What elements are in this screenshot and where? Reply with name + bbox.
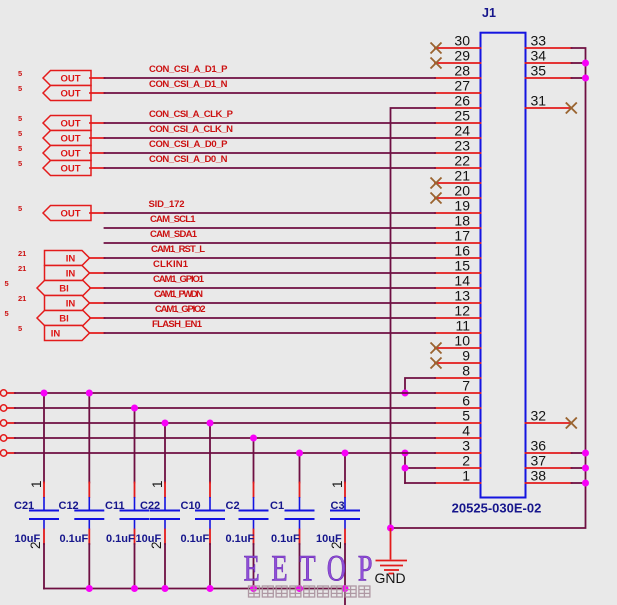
off-page connector circle row 3 (0, 420, 6, 426)
capacitor C10 0.1uF (181, 423, 226, 589)
svg-text:34: 34 (531, 48, 547, 64)
no-connect X on pin 30 (431, 43, 442, 54)
svg-text:OUT: OUT (60, 119, 80, 130)
svg-text:28: 28 (454, 63, 470, 79)
svg-text:0.1uF: 0.1uF (106, 533, 135, 545)
junction dots pin8 / pin2 branches (402, 390, 409, 472)
svg-text:7: 7 (462, 378, 470, 394)
svg-text:32: 32 (531, 408, 547, 424)
no-connect X on pin 29 (431, 58, 442, 69)
svg-text:38: 38 (531, 468, 547, 484)
svg-text:36: 36 (531, 438, 547, 454)
junction dots on bottom bus (86, 585, 349, 592)
capacitor C21 10uF (14, 393, 59, 589)
svg-text:C21: C21 (14, 500, 34, 512)
svg-text:17: 17 (454, 228, 470, 244)
svg-text:OUT: OUT (60, 89, 80, 100)
no-connect X on pin 21 (431, 178, 442, 189)
svg-text:2: 2 (28, 541, 43, 549)
svg-text:20: 20 (454, 183, 470, 199)
svg-text:33: 33 (531, 33, 547, 49)
port IN for net CLKIN1 (45, 266, 90, 281)
svg-text:4: 4 (462, 423, 470, 439)
svg-text:12: 12 (454, 303, 470, 319)
svg-text:15: 15 (454, 258, 470, 274)
junction dot GND at bottom of pin26 wire (387, 525, 394, 532)
wire CAM_SCL1 (105, 227, 436, 229)
svg-text:5: 5 (18, 144, 22, 153)
svg-text:16: 16 (454, 243, 470, 259)
capacitor C3 10uF (316, 453, 360, 589)
wire CLKIN1 (105, 272, 436, 274)
svg-text:24: 24 (454, 123, 470, 139)
svg-text:5: 5 (18, 114, 22, 123)
wire SID_172 (105, 212, 436, 214)
port BI for net CAM1_GPIO1 (37, 281, 91, 296)
svg-text:3: 3 (462, 438, 470, 454)
svg-text:0.1uF: 0.1uF (271, 533, 300, 545)
off-page connector circle row 2 (0, 405, 6, 411)
svg-text:5: 5 (5, 309, 9, 318)
svg-text:19: 19 (454, 198, 470, 214)
wire CON_CSI_A_D0_P (105, 152, 436, 154)
svg-text:C10: C10 (181, 500, 201, 512)
wire power bus row 5 (15, 452, 435, 454)
wire CAM1_PWDN (105, 302, 436, 304)
no-connect X on pin 32 (566, 418, 577, 429)
svg-text:OUT: OUT (60, 74, 80, 85)
svg-text:5: 5 (462, 408, 470, 424)
port pin stubs (90, 78, 105, 333)
svg-text:1: 1 (29, 480, 44, 488)
svg-text:9: 9 (462, 348, 470, 364)
port OUT for net CON_CSI_A_CLK_P (43, 116, 91, 131)
wire CAM1_GPIO1 (105, 287, 436, 289)
J1 right pin stubs (pins 31-38) (526, 48, 572, 483)
svg-text:2: 2 (149, 541, 164, 549)
capacitor C12 0.1uF (59, 393, 105, 589)
svg-text:IN: IN (66, 299, 76, 310)
svg-text:CAM1_GPIO2: CAM1_GPIO2 (155, 304, 206, 315)
svg-text:2: 2 (462, 453, 470, 469)
svg-text:21: 21 (18, 264, 26, 273)
wire CON_CSI_A_D1_N (105, 92, 436, 94)
wire pin8 branch from power row (405, 378, 435, 393)
svg-text:23: 23 (454, 138, 470, 154)
wire CON_CSI_A_D1_P (105, 77, 436, 79)
svg-text:1: 1 (462, 468, 470, 484)
svg-text:21: 21 (18, 294, 26, 303)
svg-text:5: 5 (18, 84, 22, 93)
wire power bus row 3 (15, 422, 435, 424)
svg-text:30: 30 (454, 33, 470, 49)
svg-text:OUT: OUT (60, 149, 80, 160)
svg-text:21: 21 (454, 168, 470, 184)
svg-text:CAM1_GPIO1: CAM1_GPIO1 (153, 274, 205, 285)
wire pins 2,1 branch from row of pin 3 (405, 453, 435, 483)
svg-text:26: 26 (454, 93, 470, 109)
svg-text:EETOP: EETOP (244, 547, 385, 588)
ground symbol (376, 528, 408, 574)
svg-text:C22: C22 (140, 500, 160, 512)
junction dots where capacitors tap bus rows (41, 390, 349, 457)
svg-text:CON_CSI_A_D1_N: CON_CSI_A_D1_N (149, 79, 228, 90)
svg-text:20525-030E-02: 20525-030E-02 (452, 501, 542, 516)
svg-text:29: 29 (454, 48, 470, 64)
svg-text:C11: C11 (105, 500, 125, 512)
wire GND net: pin26 down, across bottom, up right side to pin 33 (391, 48, 586, 528)
junction dots on GND right vertical (582, 60, 589, 487)
svg-text:IN: IN (51, 329, 61, 340)
svg-text:22: 22 (454, 153, 470, 169)
wire CON_CSI_A_CLK_P (105, 122, 436, 124)
svg-text:0.1uF: 0.1uF (226, 533, 255, 545)
svg-text:CON_CSI_A_D0_P: CON_CSI_A_D0_P (149, 139, 228, 150)
wire CON_CSI_A_D0_N (105, 167, 436, 169)
off-page pin stub row 5 (7, 452, 15, 454)
svg-text:CON_CSI_A_D0_N: CON_CSI_A_D0_N (149, 154, 228, 165)
svg-text:18: 18 (454, 213, 470, 229)
port IN for net FLASH_EN1 (45, 326, 90, 341)
port OUT for net SID_172 (43, 206, 91, 221)
svg-text:21: 21 (18, 249, 26, 258)
svg-text:BI: BI (59, 284, 69, 295)
svg-text:11: 11 (455, 318, 470, 334)
svg-text:0.1uF: 0.1uF (60, 533, 89, 545)
J1 right pin numbers 31-38 (531, 33, 547, 484)
capacitor C22 10uF (136, 423, 181, 589)
svg-text:CON_CSI_A_CLK_N: CON_CSI_A_CLK_N (149, 124, 233, 135)
svg-text:BI: BI (59, 314, 69, 325)
wire bottom GND-side bus under capacitors (44, 589, 345, 605)
port IN for net CAM1_RST_L (45, 251, 90, 266)
no-connect X on pin 31 (566, 103, 577, 114)
svg-text:25: 25 (454, 108, 470, 124)
no-connect X on pin 10 (431, 343, 442, 354)
svg-text:CAM_SCL1: CAM_SCL1 (150, 214, 196, 225)
svg-text:0.1uF: 0.1uF (181, 533, 210, 545)
svg-text:CAM1_PWDN: CAM1_PWDN (154, 289, 203, 300)
wire CAM1_GPIO2 (105, 317, 436, 319)
svg-text:CAM_SDA1: CAM_SDA1 (150, 229, 198, 240)
port OUT for net CON_CSI_A_D0_N (43, 161, 91, 176)
wire CON_CSI_A_CLK_N (105, 137, 436, 139)
svg-text:8: 8 (462, 363, 470, 379)
port IN for net CAM1_PWDN (45, 296, 90, 311)
svg-text:14: 14 (454, 273, 470, 289)
svg-text:27: 27 (454, 78, 470, 94)
svg-text:CON_CSI_A_CLK_P: CON_CSI_A_CLK_P (149, 109, 234, 120)
capacitor C2 0.1uF (226, 438, 269, 589)
wire power bus row 1 (15, 392, 435, 394)
svg-text:35: 35 (531, 63, 547, 79)
off-page connector circle row 1 (0, 390, 6, 396)
svg-text:CAM1_RST_L: CAM1_RST_L (151, 244, 205, 255)
svg-text:10: 10 (454, 333, 470, 349)
svg-text:1: 1 (150, 480, 165, 488)
capacitor C11 0.1uF (105, 408, 150, 589)
svg-text:1: 1 (330, 480, 345, 488)
wire GND stubs to right pins 34,35,36,37,38 (572, 63, 586, 483)
svg-text:J1: J1 (482, 6, 496, 20)
port OUT for net CON_CSI_A_D1_N (43, 86, 91, 101)
svg-text:C2: C2 (226, 500, 240, 512)
no-connect X on pin 9 (431, 358, 442, 369)
svg-text:C1: C1 (270, 500, 284, 512)
svg-text:13: 13 (454, 288, 470, 304)
svg-text:5: 5 (18, 324, 22, 333)
wire CAM1_RST_L (105, 257, 436, 259)
svg-text:C12: C12 (59, 500, 79, 512)
off-page pin stub row 3 (7, 422, 15, 424)
port BI for net CAM1_GPIO2 (37, 311, 91, 326)
J1 left pin stubs (pins 1-30) (435, 48, 481, 483)
port OUT for net CON_CSI_A_D0_P (43, 146, 91, 161)
svg-text:OUT: OUT (60, 134, 80, 145)
connector J1 body (481, 33, 526, 498)
wire CAM_SDA1 (105, 242, 436, 244)
svg-text:SID_172: SID_172 (149, 199, 185, 210)
off-page pin stub row 4 (7, 437, 15, 439)
svg-text:FLASH_EN1: FLASH_EN1 (152, 319, 203, 330)
svg-text:37: 37 (531, 453, 547, 469)
wire power bus row 4 (15, 437, 435, 439)
svg-text:5: 5 (18, 159, 22, 168)
off-page connector circle row 4 (0, 435, 6, 441)
watermark chinese caption (stylized) (249, 586, 370, 597)
svg-text:IN: IN (66, 254, 76, 265)
wire FLASH_EN1 (105, 332, 436, 334)
svg-text:5: 5 (18, 204, 22, 213)
svg-text:5: 5 (18, 69, 22, 78)
port OUT for net CON_CSI_A_CLK_N (43, 131, 91, 146)
wire power bus row 2 (15, 407, 435, 409)
svg-text:C3: C3 (331, 500, 345, 512)
svg-text:CON_CSI_A_D1_P: CON_CSI_A_D1_P (149, 64, 228, 75)
svg-text:IN: IN (66, 269, 76, 280)
J1 left pin numbers 1-30 (454, 33, 470, 484)
no-connect X on pin 20 (431, 193, 442, 204)
svg-text:5: 5 (5, 279, 9, 288)
off-page pin stub row 2 (7, 407, 15, 409)
svg-text:5: 5 (18, 129, 22, 138)
capacitor C1 0.1uF (270, 453, 315, 589)
svg-text:31: 31 (531, 93, 547, 109)
port OUT for net CON_CSI_A_D1_P (43, 71, 91, 86)
off-page pin stub row 1 (7, 392, 15, 394)
svg-text:6: 6 (462, 393, 470, 409)
svg-text:OUT: OUT (60, 164, 80, 175)
svg-text:CLKIN1: CLKIN1 (153, 259, 189, 270)
off-page connector circle row 5 (0, 450, 6, 456)
svg-text:OUT: OUT (60, 209, 80, 220)
